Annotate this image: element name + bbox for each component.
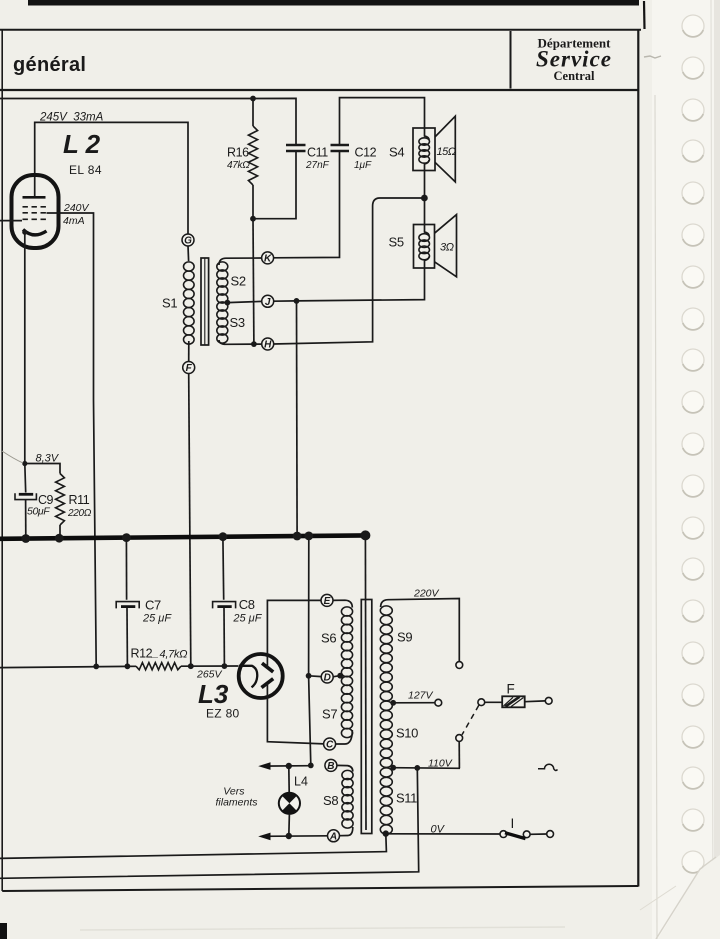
wire: B row to arrow (filaments) bbox=[262, 765, 311, 767]
svg-text:S3: S3 bbox=[230, 315, 245, 330]
svg-text:L3: L3 bbox=[198, 679, 229, 709]
svg-text:25 μF: 25 μF bbox=[142, 613, 172, 625]
svg-text:C8: C8 bbox=[239, 597, 255, 612]
svg-text:1μF: 1μF bbox=[354, 160, 372, 171]
selector contact circle bbox=[478, 699, 485, 706]
wire: D to winding tap bbox=[333, 676, 340, 677]
wire: L3 bottom to C row bbox=[267, 684, 324, 744]
wire: selector position down to 110V row bbox=[458, 741, 460, 768]
svg-text:0V: 0V bbox=[431, 824, 446, 836]
T2 winding S9/S10/S11 bbox=[380, 606, 392, 615]
wire: lamp top bbox=[288, 766, 290, 793]
svg-text:I: I bbox=[511, 816, 515, 831]
svg-text:S11: S11 bbox=[396, 791, 417, 806]
T2 winding S6/S7 bbox=[341, 607, 352, 616]
svg-text:127V: 127V bbox=[408, 690, 434, 702]
svg-text:J: J bbox=[265, 297, 271, 308]
wire: A row to arrow bbox=[262, 835, 328, 838]
lamp L4 bbox=[279, 793, 300, 814]
selector 110V position circle bbox=[456, 735, 463, 742]
speaker S4 horn 15ohm bbox=[435, 116, 455, 182]
svg-text:S7: S7 bbox=[322, 707, 337, 722]
svg-text:245V_33mA: 245V_33mA bbox=[39, 112, 104, 124]
capacitor C7 25uF bbox=[116, 602, 139, 609]
wire: J to junction and S5 bbox=[273, 300, 296, 302]
node: 8.3V junction bbox=[22, 461, 27, 466]
svg-text:4,7kΩ: 4,7kΩ bbox=[160, 649, 188, 661]
terminal G bbox=[182, 234, 194, 246]
terminal after fuse bbox=[545, 697, 552, 704]
switch I blade bbox=[505, 833, 526, 839]
wire: E to S6 top bbox=[333, 600, 353, 607]
node: cathode dot in L2 bbox=[22, 230, 27, 235]
svg-text:240V: 240V bbox=[63, 202, 90, 214]
node: tap dot bbox=[225, 300, 231, 306]
wire: B to S8 top bbox=[337, 765, 353, 771]
wire: bus down to D and B rows bbox=[309, 536, 311, 766]
terminal A bbox=[328, 830, 340, 842]
svg-text:G: G bbox=[184, 236, 192, 247]
svg-text:S9: S9 bbox=[397, 630, 412, 645]
wire: bus to C7 bbox=[125, 538, 127, 600]
node: B row junction bbox=[308, 763, 314, 769]
capacitor C8 25uF bbox=[213, 602, 236, 609]
svg-text:Service: Service bbox=[536, 47, 612, 72]
terminal 220V open circle bbox=[456, 662, 463, 669]
svg-text:S5: S5 bbox=[389, 235, 404, 250]
ground bus (thick) bbox=[0, 535, 366, 538]
wire: D junction to D bbox=[309, 675, 322, 678]
svg-text:EZ 80: EZ 80 bbox=[206, 707, 240, 721]
node: lamp bottom junction bbox=[286, 833, 292, 839]
speaker S5 horn 3ohm bbox=[435, 215, 457, 277]
svg-text:E: E bbox=[324, 596, 331, 607]
T2 core bbox=[361, 600, 372, 834]
svg-text:R16: R16 bbox=[227, 146, 249, 160]
svg-text:S1: S1 bbox=[162, 296, 177, 311]
svg-text:L4: L4 bbox=[294, 775, 308, 789]
wire: 110V junction down to bottom left bbox=[0, 768, 419, 878]
wire: switch to terminal bbox=[530, 833, 546, 835]
svg-text:L 2: L 2 bbox=[63, 129, 101, 159]
T1 core bbox=[201, 258, 209, 345]
fuse F bbox=[502, 696, 525, 707]
node: D row junction bbox=[306, 673, 312, 679]
capacitor C12 1uF bbox=[331, 144, 350, 146]
node: S4/S5 junction bbox=[421, 195, 428, 202]
wire: S4 bottom branch to H row bbox=[273, 198, 424, 344]
tube L3 (EZ80 rectifier) bbox=[239, 654, 283, 698]
wire: S8 bottom to A bbox=[339, 827, 353, 836]
T1 secondary winding S2/S3 bbox=[217, 262, 228, 271]
terminal H bbox=[262, 338, 274, 350]
arrow to filaments (top) bbox=[258, 762, 270, 770]
svg-text:C12: C12 bbox=[355, 146, 377, 160]
wire: fuse to terminal bbox=[525, 700, 546, 703]
wire: S9 top to 220V terminal bbox=[381, 599, 460, 662]
node: R16 bottom / C11 bottom bbox=[250, 216, 256, 222]
svg-text:S8: S8 bbox=[323, 793, 338, 808]
svg-text:S10: S10 bbox=[396, 726, 418, 741]
speaker S4 coil box bbox=[413, 128, 435, 171]
svg-text:110V: 110V bbox=[428, 757, 453, 769]
node: J row junction bbox=[294, 298, 300, 304]
terminal K bbox=[262, 252, 274, 264]
terminal D bbox=[321, 671, 333, 683]
capacitor C9 50uF bbox=[19, 493, 33, 496]
arrow to filaments (bottom) bbox=[258, 833, 270, 841]
svg-text:C: C bbox=[326, 740, 334, 751]
wire: bus end screen into core bbox=[364, 535, 367, 830]
wire: screen 240V from L2 down to R12 row bbox=[47, 213, 97, 666]
svg-text:D: D bbox=[324, 673, 331, 684]
svg-text:27nF: 27nF bbox=[305, 160, 330, 171]
leader line 8.3V bbox=[2, 451, 23, 463]
S4 coil bbox=[425, 128, 430, 140]
L2 anode plate bbox=[23, 196, 46, 199]
selector dashed link bbox=[462, 705, 479, 735]
L2 cathode bbox=[23, 230, 47, 235]
wire: S5 bottom to J row bbox=[297, 268, 425, 301]
wire: secondary bottom to H bbox=[219, 340, 262, 344]
wire: secondary tap to J bbox=[227, 301, 262, 302]
node: R12 row junctions bbox=[93, 664, 99, 670]
L3 anode plates bbox=[262, 663, 273, 672]
terminal 127V open circle bbox=[435, 699, 442, 706]
wire: C12 top to S4 top rail bbox=[340, 98, 425, 145]
node: 110V junction bbox=[414, 765, 420, 771]
svg-text:3Ω: 3Ω bbox=[440, 242, 454, 254]
wire: L2 cathode down to bus bbox=[24, 232, 27, 493]
wire: J junction down to bus bbox=[296, 301, 299, 536]
svg-text:220V: 220V bbox=[413, 588, 440, 600]
wire: G to primary bbox=[187, 246, 190, 261]
svg-text:4mA: 4mA bbox=[63, 215, 85, 227]
svg-text:R11: R11 bbox=[69, 493, 90, 507]
svg-text:K: K bbox=[264, 254, 272, 265]
T2 winding S8 bbox=[342, 770, 353, 779]
svg-text:R12: R12 bbox=[131, 647, 153, 661]
svg-text:F: F bbox=[507, 682, 515, 697]
svg-text:S2: S2 bbox=[231, 274, 246, 289]
switch I open circles bbox=[500, 831, 507, 838]
terminal after switch bbox=[547, 831, 554, 838]
node: D tap dot bbox=[337, 673, 343, 679]
node: bus dots bbox=[21, 534, 30, 543]
node: lamp top junction bbox=[286, 763, 292, 769]
svg-text:Vers: Vers bbox=[223, 785, 245, 797]
terminal C bbox=[324, 738, 336, 750]
wire: primary bottom to F bbox=[188, 341, 190, 362]
svg-text:S4: S4 bbox=[389, 145, 404, 160]
wire: B+ row through R12 bbox=[0, 666, 136, 667]
svg-text:50μF: 50μF bbox=[27, 506, 50, 518]
node: 127V tap dot bbox=[390, 700, 396, 706]
wire: F down across bus to R12 row bbox=[189, 373, 191, 666]
wire: lamp bottom bbox=[288, 814, 291, 836]
svg-text:général: général bbox=[13, 54, 86, 76]
svg-text:A: A bbox=[329, 831, 337, 842]
node: rail junction at R16 top bbox=[250, 96, 256, 102]
terminal B bbox=[325, 759, 337, 771]
node: H row junction bbox=[251, 341, 257, 347]
AC symbol bbox=[538, 764, 558, 770]
svg-text:_: _ bbox=[152, 648, 159, 660]
svg-text:B: B bbox=[327, 761, 334, 772]
svg-text:F: F bbox=[186, 363, 193, 374]
svg-text:Central: Central bbox=[554, 69, 595, 83]
transformer T1 primary winding S1 bbox=[184, 262, 195, 271]
svg-text:filaments: filaments bbox=[216, 797, 259, 809]
wire: R16 bottom down to H row bbox=[252, 219, 255, 344]
svg-text:15Ω: 15Ω bbox=[437, 146, 456, 158]
wire: 110V tap row bbox=[393, 767, 460, 770]
svg-text:C11: C11 bbox=[307, 146, 328, 160]
wire: 0V row bbox=[386, 833, 500, 835]
resistor R12 4.7k bbox=[136, 663, 181, 670]
L3 cathode bbox=[239, 666, 257, 688]
wire: S4 bottom junction bbox=[424, 171, 426, 225]
wire: selector to fuse bbox=[485, 701, 502, 703]
svg-text:25 μF: 25 μF bbox=[232, 613, 262, 625]
tube L2 (EL84 output pentode) bbox=[12, 175, 59, 248]
wire: 245V anode feed from L2 to G bbox=[35, 122, 188, 234]
wire: grid drive from left bbox=[0, 220, 22, 222]
svg-text:C7: C7 bbox=[145, 598, 161, 613]
wire: HT top rail to C11 bbox=[0, 98, 296, 144]
L2 grids (dashed) bbox=[23, 207, 48, 220]
wire: C12 bottom to K row bbox=[273, 151, 339, 258]
terminal E bbox=[321, 594, 333, 606]
svg-text:H: H bbox=[264, 340, 272, 351]
speaker S5 coil box bbox=[414, 225, 435, 269]
node: 110V tap dot bbox=[390, 765, 396, 771]
resistor R11 220ohm bbox=[56, 474, 65, 526]
wire: bus to C8 bbox=[222, 537, 225, 600]
S5 coil bbox=[425, 225, 430, 237]
svg-text:S6: S6 bbox=[321, 631, 336, 646]
svg-text:47kΩ: 47kΩ bbox=[227, 160, 250, 171]
wire: L3 top to E row bbox=[267, 600, 321, 667]
wire: secondary top to K bbox=[219, 258, 262, 265]
wire: S11 bottom to lower-left rail bbox=[0, 834, 386, 859]
terminal J bbox=[262, 295, 274, 307]
capacitor C11 27nF bbox=[286, 144, 306, 146]
svg-text:EL 84: EL 84 bbox=[69, 163, 102, 177]
wire: S7 bottom to C bbox=[335, 730, 352, 744]
svg-text:220Ω: 220Ω bbox=[67, 508, 92, 519]
terminal F bbox=[183, 362, 195, 374]
resistor R16 47k bbox=[248, 126, 257, 185]
wire: C9 to bus bbox=[25, 500, 27, 538]
node: S11 bottom junction bbox=[383, 830, 389, 836]
wire: 127V tap bbox=[393, 702, 435, 704]
wire: junction to R11 bbox=[25, 464, 60, 474]
